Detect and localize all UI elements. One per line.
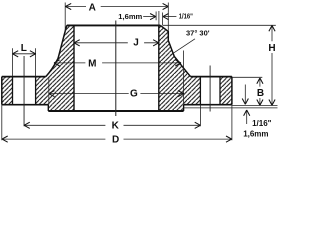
- bolt hole centerline left merged with K extension: [23, 56, 25, 126]
- svg-text:1,6mm: 1,6mm: [118, 12, 142, 21]
- svg-text:D: D: [112, 134, 119, 145]
- raised face left step: [47, 105, 49, 111]
- raised face height down arrow: [244, 85, 246, 105]
- flange outline: weld end face: [67, 24, 160, 26]
- bolt hole left edge lines: [13, 77, 36, 105]
- dimension H arrows: [269, 26, 275, 106]
- dimension H line: [271, 26, 273, 106]
- svg-text:L: L: [21, 43, 27, 54]
- dimension A arrows: [66, 3, 169, 9]
- raised face right step: [183, 105, 185, 111]
- dimension J arrows: [74, 40, 159, 46]
- flange outline: left hub outer profile with weld bevel: [46, 25, 67, 76]
- flange vertical centerline: [115, 21, 117, 117]
- dimension L line with arrows: [13, 53, 36, 55]
- hatch right hub and ring section: [159, 25, 201, 111]
- dimension B line: [259, 78, 261, 105]
- dimension A extension lines: [65, 3, 168, 34]
- flange outline: right hub outer profile with weld bevel: [160, 25, 190, 76]
- dimension D extension lines: [2, 105, 232, 140]
- dimension G line: [49, 93, 184, 95]
- ring top face left segment: [2, 76, 46, 78]
- ring right edge: [231, 77, 233, 105]
- bore line right: [158, 25, 160, 111]
- svg-text:G: G: [130, 88, 138, 99]
- dimension K line: [24, 124, 200, 126]
- hatch left hub and ring section: [36, 25, 74, 111]
- svg-text:37° 30': 37° 30': [186, 28, 210, 37]
- svg-text:J: J: [133, 38, 139, 49]
- ring top face right segment: [191, 76, 232, 78]
- svg-text:1/16": 1/16": [179, 11, 194, 20]
- 1/16 top arrow: [163, 16, 177, 18]
- hatch left outer ring piece: [2, 77, 13, 105]
- dimension B arrows: [257, 78, 263, 105]
- bottom reference line ring bottom extension: [232, 105, 278, 107]
- dimension G extension lines through section: [49, 51, 184, 105]
- ring bottom left segment: [2, 104, 49, 106]
- root face ticks: [156, 11, 163, 25]
- dimension A line: [66, 6, 169, 8]
- bolt hole right edge lines: [200, 77, 220, 105]
- svg-text:A: A: [89, 2, 96, 13]
- bore line left: [73, 25, 75, 111]
- svg-text:1,6mm: 1,6mm: [243, 130, 268, 139]
- dimension K right extension line: [199, 105, 201, 127]
- raised face height up arrow: [246, 110, 248, 124]
- dimension J line: [74, 42, 159, 44]
- ring bottom right segment: [184, 104, 232, 106]
- ring left edge: [1, 77, 3, 105]
- dimension L extension lines: [13, 48, 36, 76]
- 37 30 leader line: [170, 39, 195, 55]
- hatch right outer ring piece: [220, 77, 232, 105]
- dimension M line: [54, 62, 181, 64]
- dimension D line: [2, 138, 232, 140]
- 1,6mm top arrow: [143, 16, 156, 18]
- svg-text:B: B: [257, 88, 264, 99]
- dimension M arrows: [54, 60, 181, 66]
- bolt hole centerline right: [209, 66, 211, 112]
- dimension G arrows: [49, 91, 184, 97]
- dimension K arrows: [24, 122, 200, 128]
- svg-text:K: K: [112, 121, 120, 132]
- weld end reference line for H: [163, 24, 276, 26]
- svg-text:M: M: [88, 59, 96, 70]
- dimension D arrows: [2, 136, 232, 142]
- bottom reference line raised face extension: [184, 107, 278, 109]
- ring top face extension for B: [232, 76, 262, 78]
- raised face bottom: [48, 110, 183, 112]
- svg-text:H: H: [268, 43, 275, 54]
- svg-text:1/16": 1/16": [252, 119, 272, 128]
